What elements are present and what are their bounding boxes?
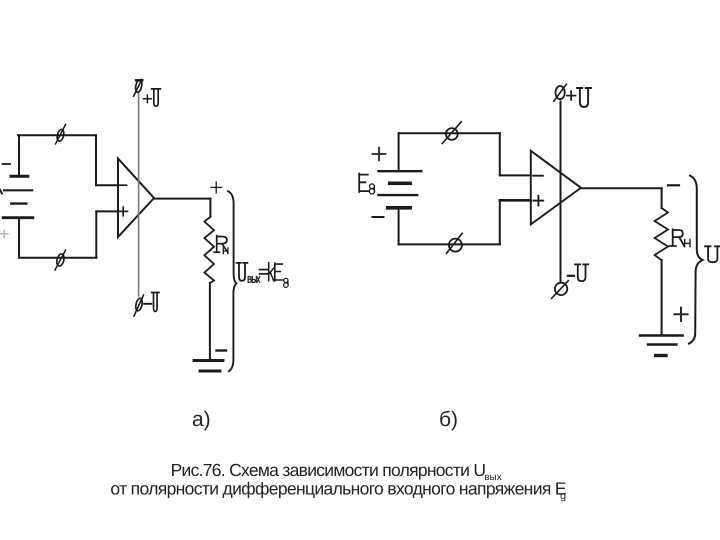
label Uvyh=kEg (circuit a) xyxy=(237,263,289,288)
label + at output node (circuit a) xyxy=(211,182,222,193)
wire resistor to ground (circuit b) xyxy=(661,260,663,335)
wire resistor to ground (circuit a) xyxy=(209,283,211,359)
brace for Uout (circuit a) xyxy=(228,191,236,371)
battery Eg (circuit a, plates cut at left edge) xyxy=(3,176,33,217)
wire bottom rail (circuit b) xyxy=(399,243,500,245)
terminal +U (circuit a) xyxy=(134,79,143,96)
svg-text:от полярности дифференциальног: от полярности дифференциального входного… xyxy=(110,479,566,499)
wire non-inverting input stub (circuit b) xyxy=(500,199,531,202)
svg-text:Рис.76. Схема зависимости поля: Рис.76. Схема зависимости полярности U xyxy=(171,460,486,480)
label - of battery (circuit a) xyxy=(3,163,11,165)
resistor Rn (circuit a) xyxy=(204,217,214,283)
wire battery bottom to bottom rail (circuit a) xyxy=(18,218,20,258)
pin + marker inside op-amp (circuit a) xyxy=(119,207,128,216)
label -U (circuit a) xyxy=(144,303,151,305)
svg-text:g: g xyxy=(560,490,566,502)
wire up to non-inverting input (circuit a) xyxy=(95,211,97,257)
terminal -U (circuit b) xyxy=(552,281,569,299)
wire bottom rail (circuit a) xyxy=(19,257,96,259)
wire inverting input stub (circuit a) xyxy=(96,184,118,186)
wire battery top to top rail (circuit a) xyxy=(18,135,20,176)
terminal T2 on bottom rail (circuit b) xyxy=(446,233,462,253)
wire inverting input stub (circuit b) xyxy=(500,174,531,176)
pin + marker inside op-amp (circuit b) xyxy=(534,196,544,206)
wire top rail (circuit a) xyxy=(18,134,96,136)
label U output (circuit b, clipped by right edge) xyxy=(705,246,720,262)
resistor Rn (circuit b) xyxy=(655,208,668,260)
wire op-amp output (circuit a) xyxy=(154,198,210,200)
wire down to inverting input (circuit b) xyxy=(499,133,501,175)
label Eg (circuit b) xyxy=(359,174,374,194)
label + of battery (circuit a, faint) xyxy=(1,230,9,238)
terminal -U (circuit a) xyxy=(134,295,144,316)
op-amp U2 triangle (circuit b) xyxy=(531,151,581,225)
wire up to non-inverting input (circuit b) xyxy=(499,200,501,244)
pin - marker inside op-amp (circuit a) xyxy=(120,184,127,186)
ground (circuit a) xyxy=(194,361,223,372)
label - of battery (circuit b) xyxy=(373,216,384,218)
brace for U (circuit b) xyxy=(689,176,703,344)
terminal T2 on bottom rail (circuit a) xyxy=(55,250,66,270)
svg-text:б): б) xyxy=(439,408,458,431)
wire top rail (circuit b) xyxy=(399,132,500,134)
battery Eg plates (circuit b) xyxy=(379,171,422,208)
ground (circuit b) xyxy=(640,336,683,356)
label Eg sliver cut at edge (circuit a) xyxy=(0,190,2,194)
label + of battery (circuit b) xyxy=(373,148,386,161)
pin - marker inside op-amp (circuit b) xyxy=(533,175,543,177)
wire output corner down (circuit a) xyxy=(209,199,211,217)
terminal T1 on top rail (circuit b) xyxy=(442,122,461,144)
label + above ground (circuit b) xyxy=(674,308,687,321)
label +U (circuit a) xyxy=(144,95,152,103)
wire battery top vertical (circuit b) xyxy=(398,133,400,171)
wire non-inverting input stub (circuit a) xyxy=(96,210,118,212)
caption line 1 xyxy=(171,460,502,483)
label -U (circuit b) xyxy=(568,275,574,277)
wire output corner down (circuit b) xyxy=(661,188,663,208)
label Rn (circuit b) xyxy=(670,229,690,246)
terminal +U (circuit b) xyxy=(554,84,567,101)
wire down to inverting input (circuit a) xyxy=(95,135,97,185)
wire op-amp output (circuit b) xyxy=(581,187,662,189)
label - at output node (circuit b) xyxy=(668,184,679,186)
label Rn (circuit a) xyxy=(214,236,228,254)
power rail line (circuit b) xyxy=(560,102,562,282)
wire battery bottom vertical (circuit b) xyxy=(398,208,400,245)
label - above ground (circuit a) xyxy=(217,349,227,351)
caption line 2 xyxy=(110,479,566,503)
equals sign of Uvyh=kEg (circuit a) xyxy=(260,270,268,274)
label +U (circuit b) xyxy=(567,91,576,100)
terminal T1 on top rail (circuit a) xyxy=(56,124,66,143)
svg-text:а): а) xyxy=(192,408,211,431)
power rail line (circuit a, thin gray) xyxy=(138,93,140,296)
op-amp U1 triangle (circuit a) xyxy=(118,159,154,238)
